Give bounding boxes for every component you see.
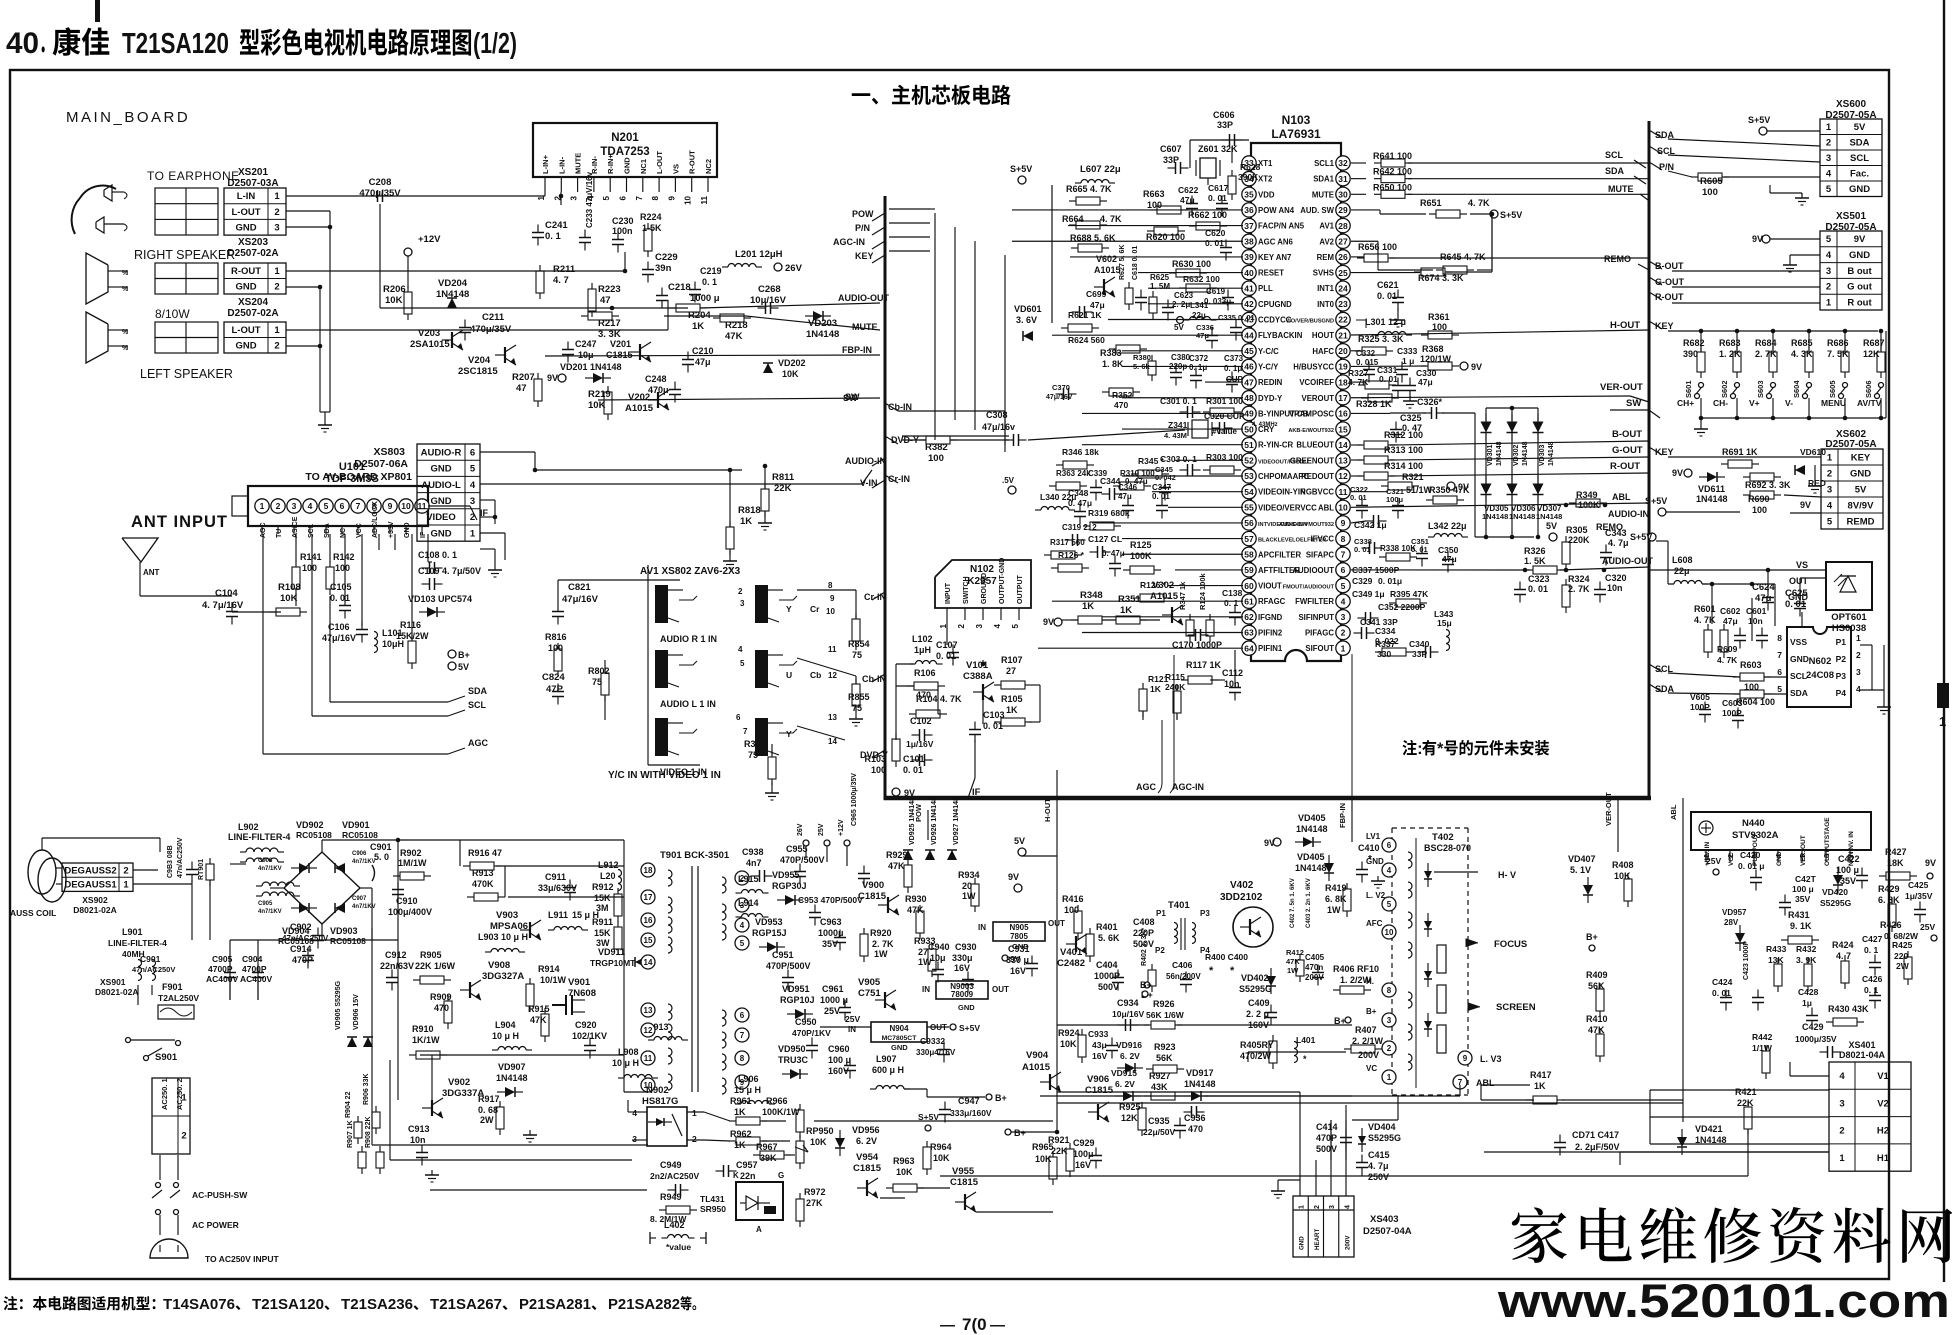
- svg-text:L901: L901: [122, 927, 143, 937]
- svg-text:1: 1: [123, 880, 129, 891]
- svg-text:T21SA236: T21SA236: [341, 1296, 413, 1313]
- svg-text:C218: C218: [668, 282, 691, 293]
- svg-text:31: 31: [1338, 174, 1348, 184]
- svg-text:C211: C211: [482, 312, 505, 323]
- svg-text:39: 39: [1244, 252, 1254, 262]
- svg-text:V955: V955: [952, 1166, 975, 1177]
- svg-text:1N4148: 1N4148: [1496, 441, 1503, 466]
- svg-text:V908: V908: [488, 960, 510, 971]
- svg-text:KEY AN7: KEY AN7: [1258, 253, 1291, 262]
- svg-text:V602: V602: [1096, 254, 1117, 264]
- svg-text:R621 1K: R621 1K: [1068, 310, 1102, 320]
- svg-text:62: 62: [1244, 612, 1254, 622]
- svg-text:C960: C960: [828, 1044, 850, 1054]
- svg-text:2. 2μ: 2. 2μ: [1172, 300, 1190, 309]
- svg-text:25V: 25V: [1920, 922, 1935, 932]
- svg-text:AUDIO-IN: AUDIO-IN: [1608, 509, 1649, 519]
- svg-text:R811: R811: [772, 472, 795, 483]
- svg-text:470P/1KV: 470P/1KV: [792, 1028, 831, 1038]
- svg-text:8/10W: 8/10W: [155, 307, 190, 321]
- svg-text:C429: C429: [1802, 1022, 1824, 1032]
- svg-text:3. 6V: 3. 6V: [1016, 315, 1037, 325]
- svg-text:600 μ H: 600 μ H: [872, 1065, 904, 1075]
- svg-text:26: 26: [1338, 252, 1348, 262]
- svg-text:TL431: TL431: [700, 1194, 725, 1204]
- svg-text:C953 470P/500V: C953 470P/500V: [798, 895, 863, 905]
- svg-text:9. 1K: 9. 1K: [1790, 921, 1812, 931]
- svg-text:4n7: 4n7: [746, 858, 762, 868]
- svg-text:9V: 9V: [1471, 362, 1482, 372]
- svg-text:47: 47: [516, 383, 527, 394]
- svg-text:Y: Y: [786, 604, 792, 614]
- svg-text:4: 4: [1387, 866, 1392, 875]
- svg-text:100: 100: [302, 563, 317, 573]
- svg-text:1: 1: [1939, 714, 1946, 729]
- svg-text:VD926 1N4148: VD926 1N4148: [931, 797, 938, 845]
- svg-text:100μ/400V: 100μ/400V: [388, 907, 432, 917]
- svg-text:T2AL250V: T2AL250V: [158, 993, 199, 1003]
- svg-text:2: 2: [1826, 138, 1831, 149]
- svg-text:AGC-IN: AGC-IN: [1172, 782, 1204, 792]
- svg-text:1μH: 1μH: [914, 645, 931, 655]
- svg-text:18K: 18K: [1887, 858, 1904, 868]
- svg-text:VD303: VD303: [1539, 444, 1546, 466]
- svg-text:C601: C601: [1746, 606, 1767, 616]
- svg-text:5: 5: [1827, 516, 1833, 527]
- svg-text:R424: R424: [1832, 940, 1854, 950]
- svg-text:0. 01μ: 0. 01μ: [1378, 576, 1402, 586]
- svg-text:MENU: MENU: [1821, 398, 1846, 408]
- svg-text:43μ: 43μ: [1092, 1040, 1107, 1050]
- svg-text:K: K: [733, 1171, 739, 1180]
- svg-text:H1: H1: [1877, 1153, 1890, 1164]
- svg-text:15K: 15K: [594, 928, 611, 938]
- svg-text:R433: R433: [1766, 944, 1787, 954]
- svg-text:AC-PUSH-SW: AC-PUSH-SW: [192, 1190, 248, 1200]
- svg-text:INT1: INT1: [1317, 284, 1335, 293]
- svg-text:RC05108: RC05108: [342, 830, 378, 840]
- svg-text:R395 47K: R395 47K: [1390, 589, 1429, 599]
- svg-text:R930: R930: [905, 894, 927, 904]
- svg-text:D8021-04A: D8021-04A: [1839, 1050, 1886, 1060]
- svg-text:C424: C424: [1712, 977, 1733, 987]
- svg-text:R401: R401: [1096, 922, 1118, 932]
- svg-text:1000P: 1000P: [1094, 971, 1120, 981]
- svg-text:P3: P3: [1200, 909, 1210, 918]
- svg-text:REDIN: REDIN: [1258, 378, 1283, 387]
- svg-text:OUTPUT: OUTPUT: [1017, 575, 1024, 605]
- svg-text:XS600: XS600: [1836, 99, 1866, 110]
- svg-text:RGP10J: RGP10J: [780, 995, 815, 1005]
- svg-text:0. 01: 0. 01: [1208, 193, 1227, 203]
- svg-text:R108: R108: [278, 582, 301, 593]
- svg-text:R624 560: R624 560: [1068, 335, 1105, 345]
- svg-text:L20: L20: [600, 871, 616, 881]
- svg-text:1. 5M: 1. 5M: [1150, 282, 1170, 291]
- svg-text:VDD: VDD: [1258, 190, 1275, 199]
- svg-text:5: 5: [740, 939, 745, 948]
- svg-text:VD421: VD421: [1695, 1124, 1723, 1134]
- svg-text:TRU3C: TRU3C: [778, 1055, 809, 1065]
- svg-text:10K: 10K: [588, 400, 606, 411]
- svg-text:R427: R427: [1885, 847, 1907, 857]
- svg-text:R907 1K: R907 1K: [347, 1120, 354, 1148]
- svg-text:DEGAUSS2: DEGAUSS2: [64, 865, 116, 876]
- svg-text:C423 1000P: C423 1000P: [1743, 941, 1750, 980]
- svg-text:AV1: AV1: [1319, 222, 1334, 231]
- svg-text:56K 1/6W: 56K 1/6W: [1146, 1010, 1185, 1020]
- svg-text:S601: S601: [1684, 380, 1693, 398]
- svg-text:1N4148: 1N4148: [806, 329, 839, 340]
- svg-text:11: 11: [700, 195, 709, 204]
- svg-text::: :: [1417, 740, 1423, 758]
- svg-text:500V: 500V: [1316, 1144, 1337, 1154]
- svg-text:S606: S606: [1864, 380, 1873, 398]
- svg-text:47μ/16V: 47μ/16V: [562, 594, 599, 605]
- svg-text:(1/2): (1/2): [473, 28, 517, 60]
- svg-text:RGP30J: RGP30J: [772, 881, 807, 891]
- svg-text:R627 5. 6K: R627 5. 6K: [1119, 245, 1126, 280]
- svg-text:SDA1: SDA1: [1313, 175, 1334, 184]
- svg-text:GND: GND: [235, 223, 256, 234]
- svg-text:3: 3: [470, 496, 475, 507]
- svg-text:MUTE: MUTE: [574, 153, 583, 174]
- svg-text:S5295G: S5295G: [1820, 898, 1852, 908]
- svg-text:R417: R417: [1530, 1070, 1552, 1080]
- svg-text:SIFINPUT: SIFINPUT: [1298, 613, 1334, 622]
- svg-text:C346: C346: [1118, 483, 1138, 492]
- svg-text:+12V: +12V: [838, 819, 845, 836]
- svg-text:AC400V: AC400V: [206, 974, 238, 984]
- svg-text:VD904: VD904: [282, 926, 310, 936]
- svg-text:4: 4: [1839, 1071, 1845, 1082]
- svg-text:2: 2: [1728, 854, 1735, 858]
- svg-text:47μ: 47μ: [1090, 300, 1105, 310]
- svg-text:Y-C/C: Y-C/C: [1258, 347, 1279, 356]
- svg-text:C352 2200P: C352 2200P: [1378, 602, 1426, 612]
- svg-text:2: 2: [181, 1130, 186, 1141]
- svg-text:5. 6K: 5. 6K: [1098, 933, 1120, 943]
- svg-text:REMD: REMD: [1847, 516, 1875, 527]
- svg-text:14: 14: [1338, 440, 1348, 450]
- svg-text:AUSS COIL: AUSS COIL: [10, 908, 56, 918]
- svg-text:R628: R628: [1240, 162, 1261, 172]
- svg-text:C920: C920: [575, 1020, 597, 1030]
- svg-text:C347: C347: [1152, 483, 1172, 492]
- svg-text:100K: 100K: [1130, 551, 1152, 561]
- svg-text:KEY: KEY: [1851, 452, 1871, 463]
- svg-text:PLL: PLL: [1258, 284, 1273, 293]
- svg-text:C428: C428: [1798, 987, 1819, 997]
- svg-text:#value: #value: [1212, 427, 1237, 436]
- svg-text:C409: C409: [1248, 998, 1270, 1008]
- svg-text:FBP-IN: FBP-IN: [842, 345, 872, 355]
- svg-text:6: 6: [619, 195, 628, 200]
- svg-text:XS203: XS203: [238, 237, 268, 248]
- svg-text:VSS: VSS: [1790, 637, 1807, 647]
- svg-text:9: 9: [830, 594, 835, 603]
- svg-text:RFAGC: RFAGC: [1258, 597, 1286, 606]
- svg-text:R430 43K: R430 43K: [1828, 1004, 1869, 1014]
- svg-text:R-OUT: R-OUT: [231, 266, 261, 277]
- svg-text:1N4148: 1N4148: [1509, 512, 1535, 521]
- svg-text:VD201 1N4148: VD201 1N4148: [560, 362, 622, 372]
- svg-text:L-OUT: L-OUT: [655, 151, 664, 174]
- svg-text:S901: S901: [155, 1052, 178, 1063]
- svg-text:NC: NC: [340, 528, 347, 538]
- svg-text:10K: 10K: [933, 1153, 950, 1163]
- svg-text:C934: C934: [1117, 998, 1139, 1008]
- svg-text:18: 18: [1338, 377, 1348, 387]
- svg-text:2SC1815: 2SC1815: [458, 366, 498, 377]
- svg-text:470P: 470P: [1316, 1133, 1337, 1143]
- svg-text:R656 100: R656 100: [1358, 242, 1397, 252]
- svg-text:FMOUT/AUDIOOUT: FMOUT/AUDIOOUT: [1283, 585, 1335, 591]
- svg-text:XS501: XS501: [1836, 211, 1866, 222]
- svg-text:7: 7: [1341, 549, 1346, 559]
- svg-text:A1015: A1015: [1150, 591, 1179, 602]
- svg-text:0. 015: 0. 015: [1356, 358, 1379, 367]
- svg-text:25: 25: [1338, 268, 1348, 278]
- svg-text:16V: 16V: [1010, 966, 1026, 976]
- svg-text:L-IN: L-IN: [237, 191, 256, 202]
- svg-text:R402 3. 3K*: R402 3. 3K*: [1141, 928, 1148, 966]
- svg-text:C233 47μV/16v: C233 47μV/16v: [585, 171, 594, 228]
- svg-text:7. 5K: 7. 5K: [1827, 349, 1849, 359]
- svg-text:C620: C620: [1205, 228, 1226, 238]
- svg-text:2: 2: [274, 207, 279, 218]
- svg-text:T14SA076: T14SA076: [163, 1296, 235, 1313]
- svg-text:15: 15: [644, 936, 653, 945]
- svg-text:REMO: REMO: [1604, 254, 1631, 264]
- svg-text:4. 43M: 4. 43M: [1164, 431, 1187, 440]
- svg-text:FLYBACKIN: FLYBACKIN: [1258, 331, 1303, 340]
- svg-text:1: 1: [470, 528, 476, 539]
- svg-text:R949: R949: [660, 1192, 682, 1202]
- svg-text:A1015: A1015: [1094, 265, 1121, 275]
- svg-text:6: 6: [736, 713, 741, 722]
- svg-text:37: 37: [1244, 221, 1254, 231]
- svg-text:T21SA267: T21SA267: [430, 1296, 502, 1313]
- svg-text:27: 27: [918, 947, 928, 957]
- svg-text:1000μ/35V: 1000μ/35V: [1795, 1034, 1837, 1044]
- svg-text:R-YIN-CR: R-YIN-CR: [1258, 441, 1293, 450]
- svg-text:L. V2: L. V2: [1366, 891, 1386, 900]
- svg-text:18: 18: [644, 866, 653, 875]
- svg-text:C101: C101: [903, 754, 925, 764]
- svg-text:6: 6: [470, 447, 475, 458]
- svg-text:48: 48: [1244, 393, 1254, 403]
- svg-text:VD907: VD907: [498, 1062, 526, 1072]
- svg-text:6: 6: [340, 501, 345, 511]
- svg-text:A: A: [756, 1225, 762, 1234]
- svg-text:C348: C348: [1068, 488, 1089, 498]
- svg-text:H-OUT: H-OUT: [1610, 320, 1640, 331]
- svg-text:Fac.: Fac.: [1850, 169, 1869, 180]
- svg-text:C908: C908: [258, 858, 273, 864]
- svg-text:AUDIO-OUT: AUDIO-OUT: [1602, 556, 1653, 566]
- svg-text:22μ: 22μ: [1674, 566, 1690, 576]
- svg-text:L903 10 μ H: L903 10 μ H: [478, 932, 528, 942]
- svg-text:C106: C106: [328, 622, 350, 632]
- svg-text:47μ/16V: 47μ/16V: [322, 633, 356, 643]
- svg-text:L-IN+: L-IN+: [541, 154, 550, 174]
- svg-text:C751: C751: [858, 988, 881, 999]
- svg-text:L906: L906: [738, 1074, 759, 1084]
- svg-text:13: 13: [1338, 456, 1348, 466]
- svg-text:C1815: C1815: [606, 350, 633, 360]
- svg-text:5V: 5V: [1854, 122, 1866, 133]
- svg-text:MUTE: MUTE: [1312, 190, 1334, 199]
- svg-text:R105: R105: [1001, 694, 1023, 704]
- svg-text:26V: 26V: [797, 823, 804, 836]
- svg-text:20: 20: [1338, 346, 1348, 356]
- svg-text:—: —: [990, 1317, 1005, 1334]
- svg-text:R104 4. 7K: R104 4. 7K: [916, 694, 962, 704]
- svg-text:L401: L401: [1296, 1035, 1316, 1045]
- svg-text:VCOIREF: VCOIREF: [1299, 378, 1334, 387]
- svg-text:SDA: SDA: [1605, 166, 1625, 176]
- svg-text:4. 7K: 4. 7K: [1694, 615, 1716, 625]
- svg-text:470K: 470K: [472, 879, 494, 889]
- svg-text:R361: R361: [1428, 312, 1450, 322]
- svg-text:AC250. 2: AC250. 2: [175, 1078, 184, 1110]
- svg-text:SCL: SCL: [1605, 150, 1624, 160]
- svg-text:*: *: [1303, 1054, 1307, 1064]
- svg-text:330μ: 330μ: [952, 953, 973, 963]
- svg-text:52: 52: [1244, 456, 1254, 466]
- svg-text:VD202: VD202: [778, 358, 806, 368]
- svg-text:C112: C112: [1222, 668, 1243, 678]
- svg-text:4: 4: [1341, 596, 1346, 606]
- svg-text:25V: 25V: [818, 823, 825, 836]
- svg-text:2: 2: [470, 512, 475, 523]
- svg-text:R963: R963: [893, 1156, 915, 1166]
- svg-text:V201: V201: [610, 339, 631, 349]
- svg-text:ABL: ABL: [1318, 503, 1334, 512]
- svg-text:24C08: 24C08: [1806, 670, 1834, 681]
- svg-text:VER-OUT: VER-OUT: [1600, 382, 1643, 393]
- svg-text:8: 8: [1777, 633, 1782, 643]
- svg-text:36: 36: [1244, 205, 1254, 215]
- svg-text:T402: T402: [1432, 832, 1454, 843]
- svg-text:LV1: LV1: [1366, 832, 1381, 841]
- svg-text:PIFAGC: PIFAGC: [1305, 629, 1334, 638]
- svg-text:Cb: Cb: [810, 670, 821, 680]
- svg-text:0. 01: 0. 01: [1350, 493, 1367, 502]
- svg-text:22μ/50V: 22μ/50V: [1143, 1127, 1175, 1137]
- svg-text:1: 1: [1826, 297, 1832, 308]
- svg-text:MAIN_BOARD: MAIN_BOARD: [66, 109, 190, 126]
- svg-text:2. 7K: 2. 7K: [872, 939, 894, 949]
- svg-text:3: 3: [1827, 484, 1832, 495]
- svg-text:IF: IF: [972, 787, 981, 798]
- svg-text:VD407: VD407: [1568, 854, 1596, 864]
- svg-text:N440: N440: [1742, 818, 1765, 829]
- svg-text:T401: T401: [1168, 900, 1190, 911]
- svg-text:C623: C623: [1174, 291, 1194, 300]
- svg-text:R630 100: R630 100: [1172, 259, 1211, 269]
- svg-text:53: 53: [1244, 471, 1254, 481]
- svg-text:1μ: 1μ: [1802, 998, 1812, 1008]
- svg-text:220: 220: [1894, 951, 1908, 961]
- svg-text:R206: R206: [383, 284, 406, 295]
- svg-text:C42T: C42T: [1795, 874, 1817, 884]
- svg-text:C940: C940: [928, 942, 950, 952]
- svg-text:R124 100k: R124 100k: [1198, 572, 1207, 610]
- svg-text:VD103 UPC574: VD103 UPC574: [408, 594, 472, 604]
- svg-text:CPUGND: CPUGND: [1258, 300, 1292, 309]
- svg-text:35V: 35V: [822, 939, 838, 949]
- svg-text:7: 7: [635, 195, 644, 200]
- svg-text:BLUEOUT: BLUEOUT: [1296, 441, 1334, 450]
- svg-text:C105: C105: [330, 582, 352, 592]
- svg-text:28: 28: [1338, 221, 1348, 231]
- svg-text:4n7/1KV: 4n7/1KV: [258, 866, 282, 872]
- svg-text:2: 2: [1827, 468, 1832, 479]
- svg-text:C408: C408: [1133, 917, 1155, 927]
- svg-text:63: 63: [1244, 628, 1254, 638]
- svg-text:R346 18k: R346 18k: [1062, 447, 1099, 457]
- svg-text:D2507-06A: D2507-06A: [354, 458, 408, 470]
- svg-text:C426: C426: [1862, 974, 1883, 984]
- svg-text:200V: 200V: [1358, 1050, 1379, 1060]
- svg-text:VIO/VER/BUSGND: VIO/VER/BUSGND: [1286, 319, 1335, 325]
- svg-text:P/N: P/N: [1659, 162, 1674, 172]
- svg-text:C247: C247: [575, 339, 597, 349]
- svg-text:21: 21: [1338, 330, 1348, 340]
- svg-text:100P: 100P: [1722, 708, 1742, 718]
- svg-text:R662 100: R662 100: [1188, 210, 1227, 220]
- svg-text:C913: C913: [408, 1124, 430, 1134]
- svg-text:C405: C405: [1305, 953, 1325, 962]
- svg-text:2: 2: [274, 341, 279, 352]
- svg-text:VD956: VD956: [852, 1125, 880, 1135]
- svg-text:2SA1015: 2SA1015: [410, 339, 450, 350]
- svg-text:470P/500V: 470P/500V: [780, 855, 825, 865]
- svg-text:C138: C138: [1222, 588, 1243, 598]
- svg-text:100: 100: [871, 765, 886, 775]
- svg-text:V903: V903: [496, 910, 518, 921]
- svg-text:C229: C229: [655, 252, 678, 263]
- svg-text:C414: C414: [1316, 1122, 1338, 1132]
- svg-text:C332: C332: [1356, 349, 1376, 358]
- svg-text:C380: C380: [1171, 353, 1191, 362]
- svg-text:R141: R141: [300, 552, 322, 562]
- svg-text:2: 2: [276, 501, 281, 511]
- svg-text:Cr: Cr: [810, 604, 820, 614]
- svg-text:100K: 100K: [1578, 500, 1600, 510]
- svg-text:L. V3: L. V3: [1480, 1054, 1502, 1064]
- svg-text:V+: V+: [1749, 398, 1760, 408]
- svg-text:0. 1: 0. 1: [545, 231, 562, 242]
- svg-text:L904: L904: [495, 1020, 516, 1030]
- svg-text:L102: L102: [912, 634, 933, 644]
- svg-text:AUDIOOUT: AUDIOOUT: [1292, 566, 1334, 575]
- svg-text:9V: 9V: [1043, 617, 1054, 627]
- svg-text:R314 100: R314 100: [1384, 461, 1423, 471]
- svg-text:IFVCC: IFVCC: [1311, 535, 1335, 544]
- svg-text:R425: R425: [1892, 940, 1913, 950]
- svg-text:AUDIO L 1 IN: AUDIO L 1 IN: [660, 699, 716, 709]
- svg-text:12K: 12K: [1121, 1113, 1138, 1123]
- svg-text:VD301: VD301: [1487, 444, 1494, 466]
- svg-text:C320 CUP: C320 CUP: [1204, 411, 1245, 421]
- svg-text:R352: R352: [1112, 390, 1133, 400]
- svg-text:R923: R923: [1154, 1042, 1176, 1052]
- svg-text:ANT INPUT: ANT INPUT: [131, 513, 228, 531]
- svg-text:VD404: VD404: [1368, 1122, 1396, 1132]
